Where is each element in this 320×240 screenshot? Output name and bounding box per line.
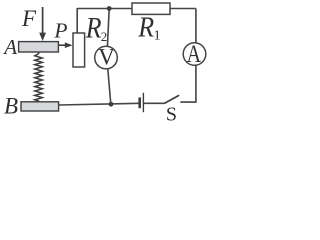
wire voltmeter branch lower: [108, 69, 111, 105]
svg-text:A: A: [2, 35, 17, 59]
block A (plate on spring): [19, 42, 59, 52]
switch S blade: [164, 95, 179, 103]
svg-text:R: R: [85, 12, 102, 45]
wire ammeter to switch right contact: [180, 65, 196, 102]
label R2: [85, 12, 107, 45]
voltmeter V: [95, 44, 118, 69]
wire right vertical to ammeter: [195, 9, 197, 44]
wiper arrow P into R2: [59, 42, 73, 48]
wire battery to switch left contact: [144, 102, 165, 104]
force arrow F: [39, 7, 46, 41]
svg-text:S: S: [166, 104, 177, 126]
block B (base plate): [21, 102, 59, 111]
battery cell: [140, 93, 144, 112]
wire top horizontal: [77, 8, 196, 10]
svg-text:2: 2: [101, 29, 108, 44]
svg-text:1: 1: [154, 28, 161, 43]
svg-text:A: A: [187, 40, 202, 68]
svg-text:P: P: [53, 19, 67, 43]
label R1: [137, 11, 160, 43]
wire left vertical to R2 top: [76, 8, 78, 33]
resistor R1: [132, 3, 170, 14]
svg-text:V: V: [98, 44, 115, 69]
wire bottom from block B to battery: [59, 103, 140, 105]
svg-text:B: B: [4, 94, 18, 119]
battery negative plate (short thick): [138, 97, 141, 108]
battery positive plate (long thin): [142, 93, 144, 112]
potentiometer R2 body: [73, 33, 85, 67]
spring: [35, 52, 43, 102]
svg-text:R: R: [137, 11, 154, 42]
node junction bottom (V branch): [109, 102, 114, 107]
node junction top (V branch): [107, 6, 112, 11]
wire voltmeter branch upper: [107, 9, 109, 47]
svg-text:F: F: [21, 6, 37, 31]
ammeter A: [183, 40, 206, 68]
